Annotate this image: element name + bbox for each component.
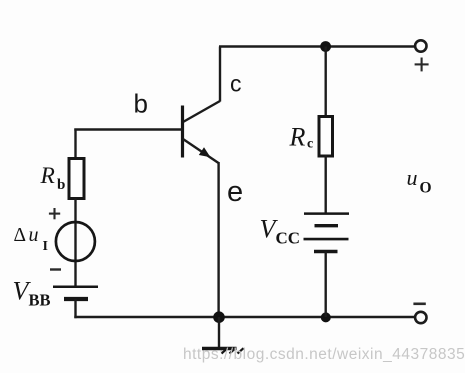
svg-text:I: I	[43, 239, 48, 254]
wire collector vertical	[219, 47, 221, 102]
resistor Rb	[69, 159, 84, 199]
svg-text:BB: BB	[29, 291, 51, 310]
svg-text:c: c	[307, 137, 313, 152]
label − (output polarity bottom)	[413, 302, 425, 305]
wire Rb to source / through source circle	[74, 199, 76, 288]
svg-text:R: R	[289, 123, 306, 152]
source Δu_I circle	[56, 222, 95, 261]
transistor Q1 base bar	[181, 106, 184, 158]
source polarity −	[50, 268, 61, 270]
wire left branch vertical (base to Rb)	[74, 129, 76, 161]
node junction top (collector rail / Rc branch)	[320, 41, 331, 52]
wire emitter vertical	[217, 162, 219, 317]
label + (output polarity top)	[415, 58, 429, 72]
output terminal + (top right)	[415, 40, 426, 51]
ground	[202, 348, 244, 353]
svg-text:https://blog.csdn.net/weixin_4: https://blog.csdn.net/weixin_44378835	[183, 346, 465, 363]
svg-text:c: c	[230, 71, 242, 97]
svg-text:b: b	[134, 89, 148, 119]
wire Rc to Vcc	[325, 155, 327, 214]
svg-text:Δ: Δ	[14, 225, 27, 246]
wire Rc branch top	[325, 47, 327, 118]
wire top rail	[219, 45, 415, 47]
battery VCC plate 1 long	[304, 212, 349, 215]
node junction bottom left (emitter / ground)	[213, 311, 225, 323]
svg-text:O: O	[420, 180, 432, 197]
battery VBB short plate	[64, 297, 88, 301]
svg-text:b: b	[57, 177, 65, 193]
battery VCC plate 2 short	[315, 224, 339, 227]
battery VCC plate 3 long	[304, 238, 349, 241]
wire VBB to bottom rail	[74, 299, 76, 318]
wire ground stub	[218, 317, 220, 348]
source polarity +	[49, 208, 60, 219]
svg-text:R: R	[40, 163, 55, 189]
transistor Q1 collector lead	[183, 101, 220, 122]
svg-text:CC: CC	[276, 229, 301, 248]
wire base	[74, 128, 181, 130]
battery VCC plate 4 short	[314, 250, 338, 253]
battery VBB long plate	[53, 286, 98, 289]
node junction bottom right (Vcc branch)	[321, 312, 331, 322]
wire bottom rail	[74, 316, 415, 318]
svg-text:u: u	[29, 224, 39, 246]
transistor Q1 emitter arrow	[199, 147, 211, 157]
svg-text:e: e	[227, 176, 243, 208]
transistor Q1 emitter lead	[183, 139, 219, 163]
wire Vcc to bottom rail	[325, 252, 327, 318]
resistor Rc	[319, 117, 333, 157]
output terminal − (bottom right)	[415, 312, 426, 323]
svg-text:u: u	[407, 165, 418, 190]
